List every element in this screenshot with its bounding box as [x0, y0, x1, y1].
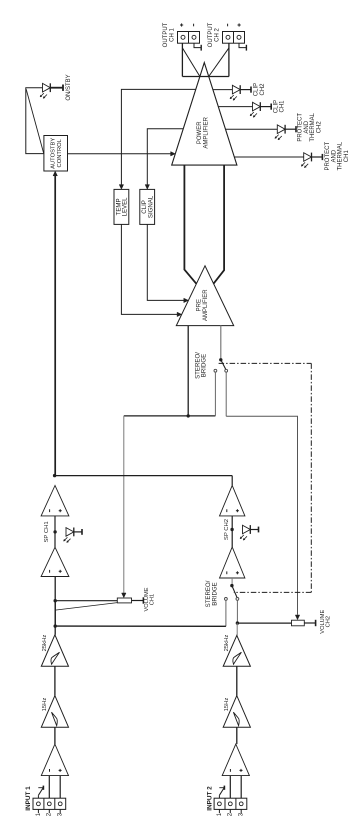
terminal PROTECT CH2 [285, 126, 296, 132]
svg-text:SIGNAL: SIGNAL [148, 195, 155, 218]
wire volume CH1 wiper diagonal [55, 603, 117, 611]
label ON/STBY [66, 74, 72, 100]
LED ON/STBY [40, 83, 50, 98]
wire pre amp to stereo/bridge switch [220, 326, 222, 359]
svg-text:BRIDGE: BRIDGE [211, 582, 218, 605]
terminal CLIP CH2 [240, 87, 251, 93]
op-amp input CH2 [222, 744, 249, 776]
wire to volume CH2 [237, 622, 291, 624]
label - OUTPUT CH2 pin [227, 24, 229, 27]
wire output bus [182, 76, 229, 78]
block TEMP LEVEL [114, 189, 129, 224]
svg-text:SP CH1: SP CH1 [44, 521, 50, 542]
svg-text:CH1: CH1 [149, 594, 155, 605]
block AUTOSTBY CONTROL [44, 136, 68, 172]
connector J2 INPUT 2 [206, 786, 247, 811]
wire AUTOSTBY to power amp [68, 152, 176, 156]
ground OUTPUT CH1 [194, 43, 201, 50]
label PROTECT AND THERMAL CH2 [298, 112, 323, 141]
node SP CH1 LED junction [53, 530, 56, 533]
svg-text:CONTROL: CONTROL [57, 138, 63, 167]
wire input CH1 pin3 [59, 776, 61, 799]
LED PROTECT AND THERMAL CH2 [275, 125, 285, 140]
label SP CH1 [44, 521, 50, 542]
wire OUTPUT CH1 hot [181, 43, 183, 76]
comparator SP CH1 upper [41, 486, 69, 516]
wire pre amp out CH1 [187, 326, 189, 416]
wire TEMP LEVEL to pre amp [121, 224, 181, 316]
svg-text:25kHz: 25kHz [42, 635, 48, 652]
node volume CH2 junction [236, 621, 239, 624]
LED CLIP CH2 [230, 85, 240, 100]
wire input CH1 pin2 [48, 776, 50, 799]
wire input CH2 pin3 [240, 776, 242, 799]
wire SP bus corner CH2 [231, 476, 233, 486]
terminal CLIP CH1 [260, 104, 271, 110]
svg-text:INPUT 2: INPUT 2 [206, 786, 213, 811]
svg-text:BRIDGE: BRIDGE [201, 354, 208, 377]
svg-text:CH1: CH1 [280, 100, 286, 113]
wire bus CH1 horizontal [124, 415, 216, 417]
svg-text:AMPLIFIER: AMPLIFIER [203, 289, 209, 321]
wire LED to AUTOSTBY diagonal [26, 89, 44, 153]
wire to PROTECT CH1 LED [234, 156, 303, 158]
wire S1 right contact down [225, 372, 227, 416]
op-amp input CH1 [41, 744, 68, 776]
svg-text:CH2: CH2 [325, 616, 331, 627]
label + OUTPUT CH2 pin [238, 23, 241, 26]
svg-text:CH 1: CH 1 [170, 28, 176, 42]
bus pre amp to power amp right [214, 165, 225, 284]
label INPUT2 pin numbers [217, 812, 245, 816]
svg-text:PRE: PRE [197, 299, 203, 311]
wire to volume CH1 [55, 600, 117, 602]
svg-text:THERMAL: THERMAL [338, 141, 344, 170]
wire power amp to CLIP SIGNAL [145, 129, 183, 190]
wire to PROTECT CH2 LED [226, 128, 278, 130]
wire bus CH1 corner down [123, 416, 125, 593]
label VOLUME CH1 [144, 587, 155, 611]
wire CH1 to S2 left contact [55, 625, 226, 627]
filter 25kHz CH1 [41, 635, 68, 667]
comparator SP CH2 upper [220, 485, 245, 516]
wire to CLIP CH2 LED [213, 89, 233, 91]
wire SP CH2 mid [231, 516, 233, 547]
connector J4 OUTPUT CH2 [208, 22, 244, 47]
potentiometer VOLUME CH2 [292, 620, 305, 626]
filter 15Hz CH1 [41, 696, 68, 728]
label - OUTPUT CH1 pin [193, 24, 195, 27]
svg-text:CLIP: CLIP [273, 100, 279, 113]
potentiometer VOLUME CH1 [117, 598, 131, 603]
terminal PROTECT CH1 [312, 154, 323, 160]
switch S2 STEREO/BRIDGE [205, 580, 239, 607]
svg-text:PROTECT: PROTECT [325, 142, 331, 171]
label + OUTPUT CH1 pin [180, 23, 183, 26]
svg-text:AND: AND [304, 120, 310, 133]
svg-text:LEVEL: LEVEL [122, 197, 129, 217]
filter 25kHz CH2 [223, 635, 250, 667]
svg-text:CH2: CH2 [316, 121, 322, 134]
terminal ON/STBY [50, 85, 63, 91]
wire SP CH1 mid [54, 516, 56, 547]
wire volume CH1 wiper arrow [122, 593, 126, 598]
wire CH1 chain mid [54, 601, 56, 626]
label SP CH2 [224, 519, 230, 540]
node volume CH1 junction [54, 599, 57, 602]
wire CH1 filt mid [54, 666, 56, 695]
wire CH2 chain to filter [236, 623, 238, 635]
wire LED to AUTOSTBY L-path [26, 88, 44, 154]
svg-text:PROTECT: PROTECT [298, 113, 304, 142]
wire bridge feed right [226, 416, 297, 615]
svg-text:15Hz: 15Hz [224, 698, 230, 712]
op-amp U2 POWER AMPLIFIER [172, 63, 237, 166]
terminal VOLUME CH1 [132, 597, 144, 603]
wire S2 right contact down [236, 600, 238, 623]
svg-text:ON/STBY: ON/STBY [66, 74, 72, 100]
wire INPUT1 pin stubs [38, 809, 60, 813]
wire SP CH2 to S2 [231, 578, 233, 584]
terminal VOLUME CH2 [304, 620, 315, 626]
switch S1 STEREO/BRIDGE [194, 352, 227, 379]
comparator SP CH2 lower [220, 547, 245, 578]
wire CLIP SIGNAL to pre amp [147, 224, 188, 302]
wire SP bus to AUTOSTBY [53, 171, 57, 475]
svg-text:15Hz: 15Hz [42, 698, 48, 712]
wire S1 left contact down [214, 372, 216, 416]
node SP CH1 junction [53, 474, 56, 477]
svg-text:OUTPUT: OUTPUT [163, 22, 169, 47]
wire S2 left contact down [225, 600, 227, 626]
node pre amp CH1 junction [187, 414, 190, 417]
svg-text:SP CH2: SP CH2 [224, 519, 230, 540]
wire power amp to TEMP LEVEL [119, 89, 196, 189]
switch INPUT1 ground lift [38, 786, 43, 799]
wire input CH2 pin2 [229, 776, 231, 799]
op-amp U1 PRE AMPLIFIER [176, 266, 233, 326]
wire INPUT2 pin stubs [219, 809, 241, 813]
bus pre amp to power amp left [184, 165, 196, 284]
switch INPUT2 ground lift [219, 786, 224, 799]
wire SP bus horizontal [55, 475, 233, 477]
wire CH2 filt to diff [236, 727, 238, 744]
comparator SP CH1 lower [41, 547, 69, 576]
wire CH2 filt mid [236, 666, 238, 695]
wire to CLIP CH1 LED [218, 106, 252, 108]
LED SP CH1 [64, 528, 74, 543]
node CH1 bridge junction [54, 624, 57, 627]
svg-text:AMPLIFIER: AMPLIFIER [203, 116, 209, 148]
LED CLIP CH1 [250, 102, 260, 117]
terminal SP CH2 LED [250, 527, 258, 533]
svg-text:CH1: CH1 [344, 150, 350, 163]
label VOLUME CH2 [320, 609, 331, 633]
svg-text:POWER: POWER [197, 121, 203, 144]
terminal SP CH1 LED [74, 529, 82, 535]
wire gang linkage dash-dot [219, 363, 312, 592]
svg-text:CLIP: CLIP [254, 83, 260, 96]
filter 15Hz CH2 [223, 696, 250, 728]
label CLIP CH2 [254, 83, 266, 96]
svg-text:INPUT 1: INPUT 1 [25, 786, 32, 811]
label CLIP CH1 [273, 100, 285, 113]
svg-text:25kHz: 25kHz [224, 635, 230, 652]
svg-text:OUTPUT: OUTPUT [208, 22, 214, 47]
svg-text:AUTOSTBY: AUTOSTBY [51, 138, 57, 169]
block CLIP SIGNAL [140, 189, 155, 224]
wire SP CH1 lower out [54, 577, 56, 635]
label INPUT1 pin numbers [36, 812, 64, 816]
wire output diag CH2 [209, 48, 229, 77]
label PROTECT AND THERMAL CH1 [325, 141, 350, 170]
LED SP CH2 [240, 525, 250, 540]
wire volume CH2 wiper arrow [295, 615, 299, 620]
wire output diag CH1 [182, 48, 200, 77]
svg-text:THERMAL: THERMAL [310, 112, 316, 141]
svg-text:AND: AND [331, 149, 337, 162]
connector J3 OUTPUT CH1 [163, 22, 199, 47]
node SP CH2 LED junction [230, 528, 233, 531]
wire OUTPUT CH2 hot [228, 43, 230, 76]
connector J1 INPUT 1 [25, 786, 65, 811]
ground OUTPUT CH2 [239, 43, 246, 50]
svg-text:CH 2: CH 2 [215, 28, 221, 42]
wire CH1 filt to diff [54, 727, 56, 744]
LED PROTECT AND THERMAL CH1 [301, 153, 311, 168]
svg-text:CH2: CH2 [260, 83, 266, 96]
